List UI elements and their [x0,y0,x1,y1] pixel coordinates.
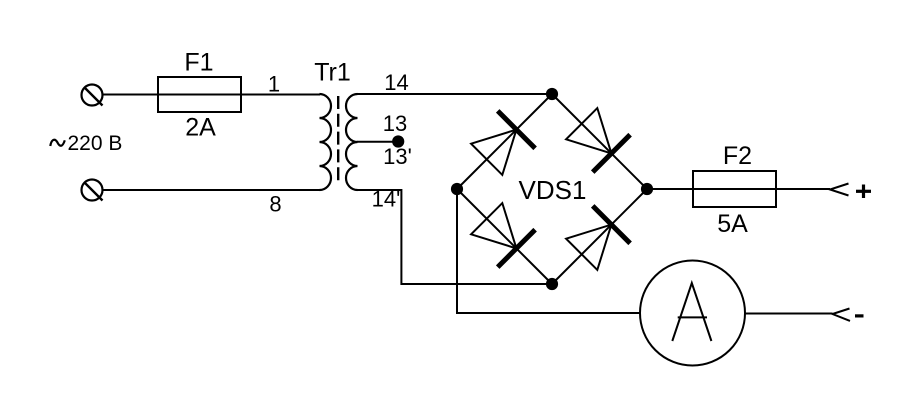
secondary winding [346,94,357,190]
svg-text:14: 14 [384,70,408,95]
wire right node to + output [647,188,830,190]
connector arrow - output [833,309,851,321]
svg-text:F1: F1 [184,49,213,77]
label - [855,314,864,317]
svg-text:F2: F2 [723,142,752,170]
wire secondary tap 13 [357,141,398,143]
junction dot pins 13-13' [392,135,404,147]
svg-text:5A: 5A [717,210,748,238]
wire secondary bottom 14' [357,190,552,284]
wire bridge side left-top [457,94,552,189]
svg-text:1: 1 [268,72,280,97]
svg-text:13': 13' [383,144,412,169]
svg-text:8: 8 [269,192,281,217]
core [337,96,339,184]
label + [856,185,871,199]
wire bridge side top-right [552,94,647,189]
svg-text:Tr1: Tr1 [314,59,351,87]
svg-text:VDS1: VDS1 [519,175,587,205]
junction dot bridge top node [546,88,558,100]
fuse F1 [158,49,241,142]
wire bottom primary [103,189,321,191]
diode VD2 (top to right) [566,108,630,172]
wire ammeter to - output [745,313,833,315]
ammeter PA1 [640,261,745,366]
connector arrow + output [830,184,849,196]
terminal X2 (bottom input) [82,180,103,201]
diode bridge VDS1 [519,175,587,205]
junction dot bridge bottom node [546,278,558,290]
diode VD3 (left to bottom) [471,203,535,267]
junction dot bridge right node [641,183,653,195]
terminal X1 (top input) [82,85,103,106]
fuse F2 [693,142,776,238]
svg-text:13: 13 [383,111,407,136]
diode VD1 (left to top) [471,111,535,175]
transformer Tr1 [314,59,357,191]
wire bridge side bottom-right [552,189,647,284]
wire top primary [103,94,321,96]
wire secondary top to bridge [357,93,552,95]
svg-text:220 В: 220 В [68,132,123,155]
svg-text:2A: 2A [185,114,216,142]
diode VD4 (bottom to right) [566,206,630,270]
primary winding [320,94,332,190]
label ~220 B [50,132,122,155]
wire bridge side left-bottom [457,189,552,284]
junction dot bridge left node [451,183,463,195]
wire left node down to ammeter [457,189,640,313]
